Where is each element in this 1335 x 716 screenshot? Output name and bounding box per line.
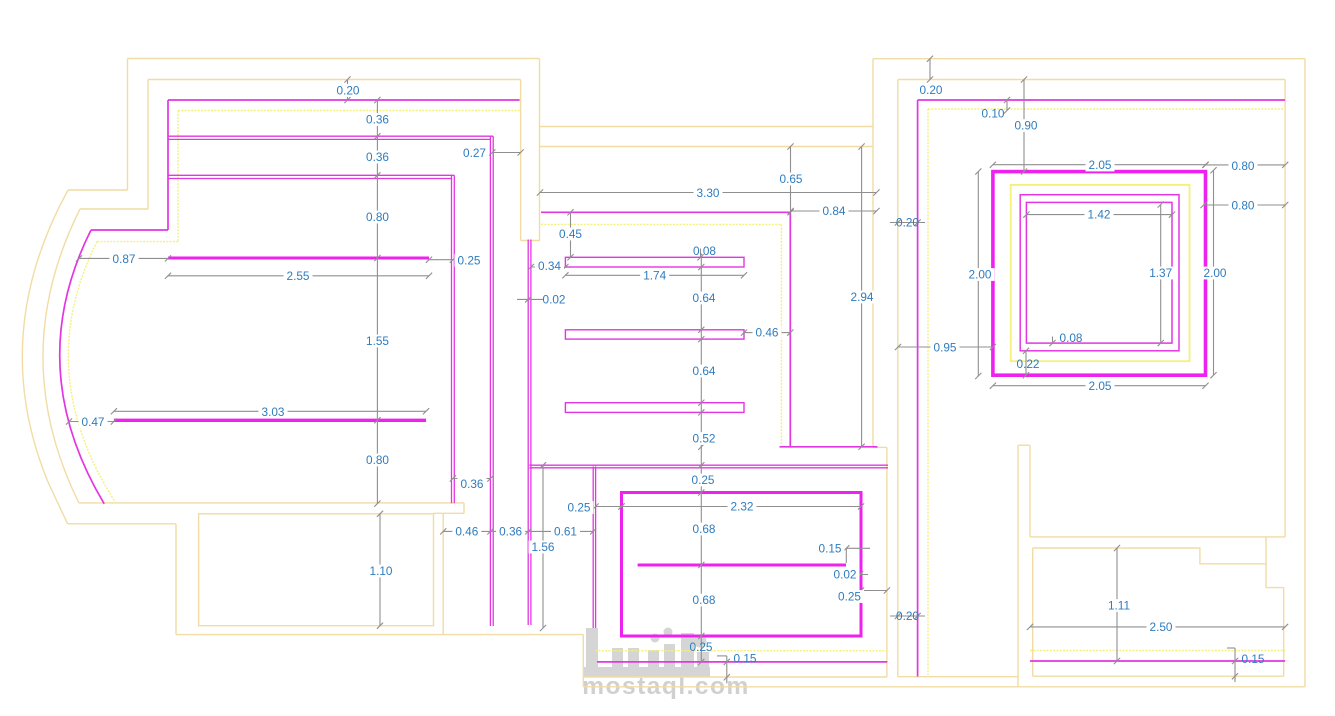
ceiling yellow bottom right — [1030, 650, 1285, 652]
dim shelf chain — [698, 257, 704, 665]
svg-text:0.68: 0.68 — [693, 593, 716, 607]
wall outer-left arc — [22, 190, 68, 524]
gypsum inner thick line — [638, 564, 846, 567]
dim row y531 — [440, 525, 596, 539]
gypsum bottom middle line — [597, 661, 887, 663]
svg-text:0.15: 0.15 — [1242, 652, 1265, 666]
svg-text:0.15: 0.15 — [819, 541, 842, 555]
svg-text:0.47: 0.47 — [82, 415, 105, 429]
dim 2.00 left — [966, 168, 995, 379]
svg-text:0.65: 0.65 — [780, 172, 803, 186]
dim 0.25 mid bottom — [690, 640, 713, 654]
svg-text:2.05: 2.05 — [1089, 379, 1112, 393]
dim 3.03 — [111, 405, 429, 419]
dim 0.25 mid top — [689, 473, 718, 487]
svg-text:0.20: 0.20 — [896, 609, 919, 623]
shelf thick 2.55 — [168, 257, 429, 260]
svg-text:0.64: 0.64 — [693, 364, 716, 378]
gypsum double band 0.36a — [168, 136, 493, 139]
svg-text:1.11: 1.11 — [1108, 599, 1130, 613]
gypsum double wall y465 — [529, 465, 888, 468]
svg-text:2.05: 2.05 — [1089, 158, 1112, 172]
dim 0.22 — [1017, 348, 1040, 379]
dim 1.37 — [1146, 201, 1175, 346]
dim 0.20 right top — [920, 56, 943, 98]
wall middle top inner — [540, 146, 873, 148]
dim 0.80 r2 — [1200, 199, 1288, 213]
dim 0.20 top-left — [334, 76, 363, 103]
dim 0.20 wall upper — [890, 216, 925, 230]
wall inner-left arc — [43, 209, 80, 503]
dim 2.32 — [618, 500, 864, 514]
ceiling yellow square — [1011, 185, 1190, 361]
svg-text:0.84: 0.84 — [823, 204, 846, 218]
dim 2.00 right — [1201, 167, 1230, 378]
svg-text:2.00: 2.00 — [969, 268, 992, 282]
gypsum double band 0.36b — [168, 175, 454, 178]
svg-text:2.94: 2.94 — [851, 290, 874, 304]
svg-text:2.00: 2.00 — [1204, 266, 1227, 280]
svg-text:0.68: 0.68 — [693, 522, 716, 536]
gypsum square mid — [1020, 195, 1179, 351]
gypsum right wall vertical — [918, 100, 1286, 677]
svg-text:0.36: 0.36 — [499, 525, 522, 539]
svg-text:1.55: 1.55 — [366, 334, 389, 348]
svg-text:0.46: 0.46 — [756, 326, 779, 340]
wall right-section inner top — [898, 79, 1285, 81]
dim 0.08 square — [1049, 331, 1083, 346]
svg-text:0.22: 0.22 — [1017, 357, 1040, 371]
wall big-room bottom — [1030, 536, 1285, 538]
dim 0.15 bottom mid — [717, 652, 757, 684]
svg-text:0.80: 0.80 — [366, 210, 389, 224]
svg-text:0.45: 0.45 — [559, 227, 582, 241]
watermark mostaql — [582, 628, 750, 701]
gypsum big rect 2.32 — [622, 493, 862, 637]
dim 0.45 — [556, 209, 585, 260]
wall bottom-right room — [1033, 537, 1284, 676]
ceiling yellow middle room — [541, 224, 781, 446]
dim 0.87 — [76, 252, 171, 266]
dim 0.34 — [528, 259, 569, 273]
svg-text:1.37: 1.37 — [1149, 266, 1172, 280]
svg-text:0.36: 0.36 — [461, 477, 484, 491]
dim 0.90 — [1012, 76, 1041, 174]
svg-text:0.52: 0.52 — [693, 432, 716, 446]
dim 0.64 a — [690, 291, 719, 305]
gypsum pair4 vertical — [593, 467, 595, 629]
ceiling yellow left room — [97, 111, 520, 242]
wall inner bottom arc-room — [79, 503, 464, 513]
dim 0.25 rect to wall — [835, 587, 890, 603]
svg-text:0.80: 0.80 — [1232, 159, 1255, 173]
gypsum pair2 vertical — [490, 136, 493, 626]
dim 0.27 — [463, 146, 524, 160]
dim 0.36 a — [363, 113, 392, 127]
ceiling yellow left arc — [68, 242, 116, 504]
dim 1.42 — [1023, 208, 1175, 222]
dim 0.08 shelf — [693, 244, 716, 261]
svg-text:3.03: 3.03 — [262, 405, 285, 419]
dim 0.46 shelf2 — [741, 326, 794, 340]
dim 0.10 — [982, 97, 1011, 121]
wall right-section inner right — [1284, 80, 1286, 537]
svg-text:0.95: 0.95 — [934, 340, 957, 354]
svg-text:0.08: 0.08 — [693, 244, 716, 258]
dim 0.84 — [788, 204, 880, 218]
wall outer right section — [873, 59, 1305, 687]
wall inner top-left — [80, 80, 521, 210]
dim chain left vertical line — [374, 97, 380, 507]
svg-text:0.20: 0.20 — [896, 216, 919, 230]
svg-text:0.25: 0.25 — [838, 590, 861, 604]
dim 0.20 wall lower — [890, 609, 925, 623]
dim 2.55 — [165, 269, 432, 283]
dim 0.95 — [895, 340, 996, 354]
dim 0.15 inner line — [816, 541, 871, 563]
dim 0.65 — [777, 143, 806, 215]
wall middle top outer — [540, 59, 874, 241]
wall corridor left — [521, 80, 540, 241]
svg-text:0.36: 0.36 — [366, 150, 389, 164]
svg-text:0.02: 0.02 — [543, 293, 566, 307]
svg-text:1.74: 1.74 — [643, 268, 666, 282]
svg-text:0.25: 0.25 — [458, 254, 481, 268]
dim 0.02 rect edge — [831, 568, 869, 582]
dim 0.36 pair1-pair2 — [450, 475, 494, 491]
dim 0.02 pair3 — [517, 293, 565, 307]
gypsum pair1 vertical — [452, 175, 455, 503]
dim 1.74 — [562, 268, 747, 282]
dim 1.10 small room — [367, 511, 396, 629]
svg-text:0.10: 0.10 — [982, 107, 1005, 121]
dim 0.52 — [690, 432, 719, 446]
svg-text:0.08: 0.08 — [1060, 331, 1083, 345]
gypsum square inner — [1026, 202, 1172, 343]
dim 0.25 left of rect — [565, 501, 625, 515]
shelf rect no2 — [565, 330, 744, 339]
gypsum middle room top — [541, 212, 791, 446]
svg-text:0.61: 0.61 — [554, 525, 577, 539]
svg-text:0.02: 0.02 — [834, 568, 857, 582]
wall outer top-left section — [68, 59, 540, 191]
svg-text:0.25: 0.25 — [692, 473, 715, 487]
dim 1.55 — [363, 334, 392, 348]
dim 0.80 b — [363, 453, 392, 467]
shelf thick 3.03 — [114, 419, 426, 422]
svg-text:0.80: 0.80 — [1232, 199, 1255, 213]
dim 0.64 b — [690, 364, 719, 378]
gypsum magenta left room top — [91, 100, 520, 230]
gypsum square outer — [993, 172, 1206, 376]
wall pier column — [1018, 445, 1033, 687]
svg-text:0.64: 0.64 — [693, 291, 716, 305]
wall inner bottom middle — [583, 676, 1018, 678]
shelf rect no3 — [565, 403, 744, 413]
dim 0.68 a — [690, 522, 719, 536]
svg-text:0.87: 0.87 — [113, 252, 136, 266]
svg-text:0.36: 0.36 — [366, 113, 389, 127]
svg-text:1.10: 1.10 — [370, 564, 393, 578]
svg-text:0.15: 0.15 — [734, 652, 757, 666]
wall small-room right band — [442, 513, 444, 634]
svg-text:0.80: 0.80 — [366, 453, 389, 467]
gypsum middle room bottom — [780, 446, 878, 448]
dim 0.80 r1 — [1202, 159, 1288, 173]
wall right-section inner left — [897, 80, 899, 677]
dim 2.05 top — [990, 158, 1209, 172]
dim 1.56 — [529, 462, 558, 631]
svg-text:1.56: 1.56 — [532, 540, 555, 554]
dim 0.68 b — [690, 593, 719, 607]
wall outer bottom jog — [583, 635, 1305, 687]
dim 0.25 right of 2.55 — [426, 254, 484, 268]
svg-text:0.90: 0.90 — [1015, 119, 1038, 133]
dim 0.47 — [66, 415, 117, 429]
dim 1.11 — [1105, 545, 1134, 664]
svg-text:0.20: 0.20 — [337, 84, 360, 98]
room rect 2.30x1.10 — [199, 514, 434, 626]
dim 2.50 — [1027, 620, 1288, 634]
svg-text:0.20: 0.20 — [920, 83, 943, 97]
gypsum pair3 vertical — [528, 240, 531, 626]
shelf rect 1.74 no1 — [565, 257, 744, 267]
wall middle-right band — [873, 447, 887, 677]
ceiling yellow right wall — [928, 109, 1285, 677]
svg-text:2.50: 2.50 — [1150, 620, 1173, 634]
dim 0.15 bottom right — [1227, 648, 1265, 682]
svg-text:0.46: 0.46 — [455, 525, 478, 539]
dim 0.36 b — [363, 150, 392, 164]
svg-text:0.27: 0.27 — [463, 146, 486, 160]
dim 0.80 a — [363, 210, 392, 224]
gypsum magenta left arc — [60, 230, 104, 504]
svg-text:1.42: 1.42 — [1088, 208, 1111, 222]
svg-text:2.55: 2.55 — [287, 269, 310, 283]
svg-text:0.25: 0.25 — [568, 501, 591, 515]
ceiling yellow bottom middle — [595, 650, 887, 652]
svg-text:2.32: 2.32 — [731, 500, 754, 514]
dim 3.30 — [537, 186, 880, 200]
svg-text:0.25: 0.25 — [690, 640, 713, 654]
gypsum bottom right line — [1030, 660, 1285, 662]
svg-text:3.30: 3.30 — [697, 186, 720, 200]
wall outer bottom-left — [68, 524, 584, 635]
dim 2.05 bottom — [990, 379, 1209, 393]
dim 2.94 — [848, 143, 877, 450]
svg-text:0.34: 0.34 — [538, 259, 561, 273]
